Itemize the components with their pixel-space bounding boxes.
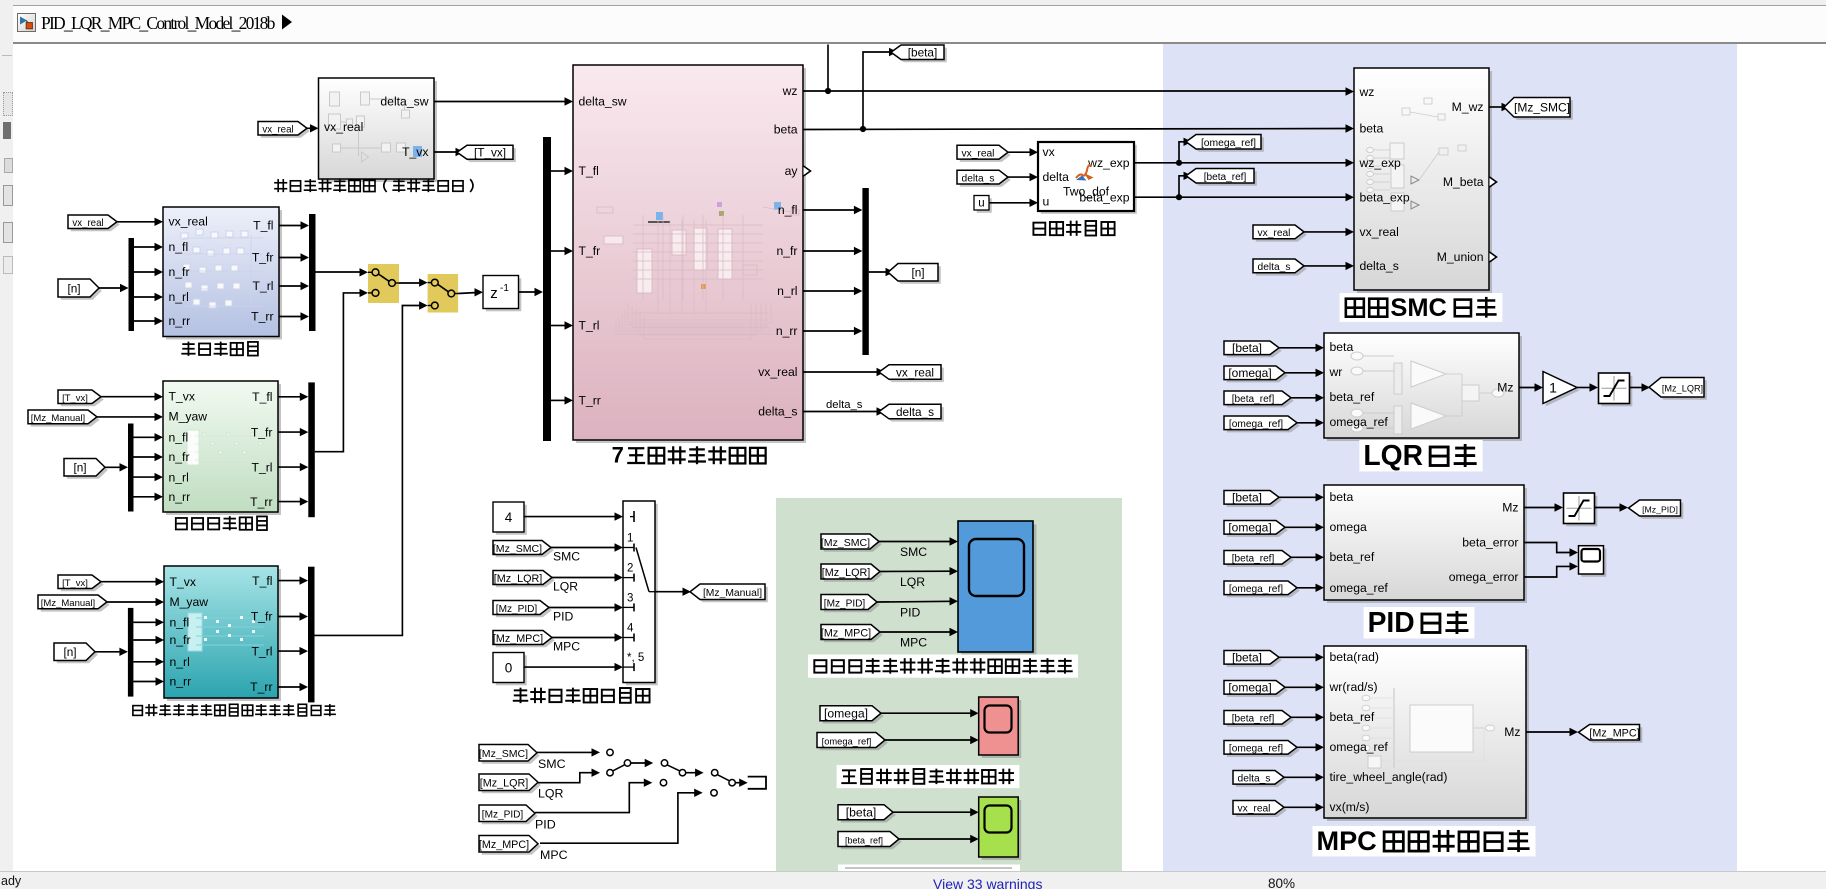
svg-text:[beta_ref]: [beta_ref] (845, 835, 883, 845)
from tag [Mz_MPC] (cascade) (479, 836, 541, 855)
wire T out y286 to mux (279, 285, 304, 287)
wire const0 to switch (524, 666, 617, 668)
wire [beta] mpc (1279, 656, 1318, 658)
svg-text:T_fr: T_fr (579, 244, 601, 258)
svg-text:MPC: MPC (1317, 825, 1377, 856)
wire sw2 to sw3 (686, 772, 698, 774)
from tag [omega_ref] (mpc) (1224, 741, 1300, 757)
svg-text:T_fl: T_fl (579, 164, 599, 178)
stub bracket (unfinished connection) (748, 777, 766, 789)
svg-text:[Mz_PID]: [Mz_PID] (1642, 504, 1678, 514)
wire demux1 out y297 (134, 296, 158, 298)
svg-text:vx_real: vx_real (962, 149, 995, 160)
from tag [Mz_MPC] (cmp scope) (821, 625, 883, 643)
svg-text:LQR: LQR (900, 575, 925, 589)
mux bar (no-control outputs) (309, 214, 316, 331)
svg-text:Mz: Mz (1504, 725, 1520, 739)
wire [Mz_LQR] switch (552, 577, 617, 579)
svg-text:[Mz_LQR]: [Mz_LQR] (494, 573, 542, 585)
wire [omega_ref] pid (1297, 587, 1318, 589)
svg-text:n_rl: n_rl (169, 470, 189, 484)
svg-text:wr: wr (1329, 365, 1343, 379)
svg-text:ay: ay (785, 164, 799, 178)
junction wz (825, 88, 831, 94)
svg-text:beta_exp: beta_exp (1360, 190, 1410, 204)
svg-text:n_rr: n_rr (169, 490, 191, 504)
junction beta_exp (1176, 194, 1182, 200)
svg-text:[Mz_SMC]: [Mz_SMC] (479, 748, 528, 760)
block LQR LQR控制 (LQR subsystem) (1324, 333, 1522, 441)
wire [n] lower demux (95, 651, 122, 653)
svg-text:[beta]: [beta] (846, 806, 877, 820)
svg-text:T_rl: T_rl (252, 644, 273, 658)
svg-text:PID: PID (1368, 606, 1415, 638)
saturation block (lqr) (1599, 373, 1633, 406)
svg-text:[Mz_MPC]: [Mz_MPC] (493, 633, 543, 645)
goto tag [omega_ref] (smc) (1186, 135, 1264, 152)
sw3 diagonal (717, 775, 729, 781)
saturation block (pid) (1564, 493, 1598, 526)
top spacer above breadcrumb (13, 0, 1826, 5)
demux bar (plant T inputs) (543, 137, 551, 441)
unit delay block z^-1 (483, 276, 521, 312)
from tag [omega_ref] (red scope) (817, 733, 888, 751)
from tag [T_vx] (avg) (58, 390, 104, 406)
wire T_vx to goto (434, 151, 458, 153)
goto tag [Mz_LQR] (1649, 378, 1707, 400)
from tag vx_real (mpc) (1233, 801, 1287, 817)
svg-text:SMC: SMC (538, 757, 566, 771)
sw3 contact out (729, 780, 735, 786)
wire beta_exp to [beta_ref] (1179, 176, 1186, 197)
svg-text:[Mz_SMC]: [Mz_SMC] (493, 543, 542, 555)
sw1 diagonal (613, 765, 625, 771)
demux bar (lower inputs) (128, 608, 133, 697)
wire plant input y325.5 (551, 325, 567, 327)
wire n y291 mux (803, 290, 857, 292)
label MPC模型预测控制 (1313, 825, 1536, 856)
svg-text:delta_s: delta_s (758, 405, 797, 419)
svg-text:n_fr: n_fr (776, 244, 797, 258)
wire n y210 mux (803, 209, 857, 211)
from tag [omega] (red scope) (820, 706, 884, 724)
svg-text:Two_dof: Two_dof (1063, 185, 1110, 199)
svg-text:2: 2 (627, 563, 633, 575)
wire vx_real out (803, 371, 879, 373)
wire [Mz_PID] cmp scope (877, 600, 952, 603)
sw3 contact in1 (712, 770, 718, 776)
wire wz plant->SMC (803, 90, 1348, 92)
goto tag [Mz_PID] (1629, 500, 1684, 519)
wire [Mz_PID] switch (549, 607, 617, 609)
wire [omega] red scope (881, 712, 973, 714)
svg-text:vx_real: vx_real (1238, 804, 1271, 815)
wire Mz_MPC to sw3 (540, 793, 697, 843)
wire demux1 out y247 (134, 246, 158, 248)
wire demux3 out y681.5 (133, 681, 158, 683)
svg-text:vx(m/s): vx(m/s) (1330, 800, 1370, 814)
sw2 contact in2 (660, 780, 666, 786)
block PID PID控制 (PID subsystem) (1324, 485, 1527, 603)
wire vx_real to driver (307, 127, 313, 129)
svg-text:vx_real: vx_real (324, 120, 363, 134)
wire wz_exp to [omega_ref] (1179, 142, 1186, 163)
svg-text:-1: -1 (500, 283, 509, 294)
mux bar (lower outputs) (308, 567, 315, 703)
svg-text:T_vx: T_vx (169, 390, 195, 404)
svg-text:vx_real: vx_real (758, 365, 797, 379)
from tag [Mz_SMC] (cmp scope) (821, 534, 882, 552)
svg-text:wz_exp: wz_exp (1359, 156, 1402, 170)
svg-text:n_rl: n_rl (777, 284, 797, 298)
sw3 contact in2 (711, 790, 717, 796)
wire [Mz_SMC] cmp scope (879, 541, 952, 543)
wire [beta_ref] mpc (1291, 716, 1318, 718)
svg-text:beta_ref: beta_ref (1330, 710, 1375, 724)
svg-text:omega_ref: omega_ref (1330, 581, 1389, 595)
svg-text:PID: PID (535, 818, 556, 832)
scope 质心侧偏角 (green scope) (979, 797, 1022, 860)
wire vx_real twodof (1008, 151, 1032, 153)
svg-text:beta: beta (774, 123, 798, 137)
breadcrumb play arrow (280, 13, 296, 31)
wire Mz_LQR to sw1 (538, 773, 594, 783)
svg-text:vx_real: vx_real (896, 365, 934, 379)
wire switch to [Mz_Manual] (655, 591, 685, 593)
wire [Mz_Manual] lower (107, 601, 158, 603)
wire mux1 to switch1 in1 (316, 271, 363, 273)
wire [omega] mpc (1285, 686, 1318, 688)
svg-text:[Mz_SMC]: [Mz_SMC] (821, 537, 870, 549)
label 平均控制模块 (176, 516, 267, 530)
label 实际与目标横摆角速度 (837, 765, 1020, 788)
wire [Mz_MPC] switch (552, 637, 617, 639)
goto tag vx_real (plant) (879, 365, 944, 382)
scope 四种控制器 comparison (blue scope) (958, 521, 1036, 655)
svg-text:3: 3 (627, 592, 633, 604)
svg-text:M_yaw: M_yaw (169, 410, 208, 424)
svg-text:[Mz_PID]: [Mz_PID] (824, 598, 866, 609)
left toolbar strip (0, 0, 14, 871)
from tag [T_vx] (lower) (58, 575, 104, 591)
wire beta plant->SMC (803, 129, 1348, 130)
svg-text:delta_s: delta_s (826, 399, 863, 411)
svg-text:n_fr: n_fr (169, 450, 190, 464)
svg-text:T_rl: T_rl (579, 319, 600, 333)
goto tag [Mz_Manual] (690, 584, 768, 602)
from tag [omega_ref] (pid) (1224, 581, 1300, 597)
svg-text:*, 5: *, 5 (627, 652, 644, 664)
svg-text:[beta_ref]: [beta_ref] (1204, 172, 1247, 183)
svg-text:T_vx: T_vx (170, 575, 196, 589)
wire [Mz_LQR] cmp scope (880, 570, 952, 572)
from tag [beta] (lqr) (1224, 341, 1282, 357)
svg-text:n_fl: n_fl (778, 203, 798, 217)
sw1 contact in1 (607, 749, 613, 755)
svg-text:PID: PID (553, 610, 574, 624)
wire T out y257.5 to mux (279, 257, 304, 259)
svg-text:T_rl: T_rl (252, 460, 273, 474)
mux bar (n outputs) (862, 188, 868, 355)
manual switch 2 (yellow) (428, 274, 459, 313)
wire plant input y171 (551, 170, 567, 172)
wire demux2 out y496.8 (134, 496, 158, 498)
svg-text:LQR: LQR (538, 787, 564, 801)
svg-text:beta: beta (1330, 340, 1354, 354)
svg-text:n_rr: n_rr (776, 324, 798, 338)
svg-text:omega: omega (1330, 520, 1367, 534)
svg-text:4: 4 (505, 510, 513, 525)
wire wz junction up (827, 45, 829, 92)
wire delta_sw driver to plant (434, 101, 567, 103)
wire [Mz_MPC] cmp scope (880, 631, 952, 633)
wire Tavg y501.6 mux (278, 501, 303, 503)
svg-text:vx: vx (1043, 145, 1055, 159)
svg-text:[Mz_LQR]: [Mz_LQR] (1662, 384, 1703, 394)
wire n y331 mux (803, 330, 857, 332)
goto tag [T_vx] (driver) (457, 145, 516, 162)
constant block 4 (493, 502, 527, 535)
from tag [Mz_SMC] (mode sel) (493, 541, 554, 558)
green comparison area (776, 498, 1122, 871)
wire beta_error to scope (1524, 543, 1572, 553)
wire Tlow y651.1 mux (278, 650, 303, 652)
svg-text:Mz: Mz (1497, 381, 1513, 395)
sw2 diagonal (667, 765, 680, 771)
constant block 0 (493, 653, 527, 686)
from tag vx_real (twodof) (957, 145, 1011, 162)
svg-text:omega_ref: omega_ref (1330, 415, 1389, 429)
label 期望值计算 (1033, 221, 1114, 236)
model icon in breadcrumb (17, 13, 36, 32)
svg-text:vx_real: vx_real (169, 215, 208, 229)
svg-text:SMC: SMC (553, 550, 580, 564)
wire const4 to switch (524, 516, 617, 518)
wire plant input y400.4 (551, 399, 567, 401)
wire [Mz_Manual] avg (97, 416, 157, 418)
svg-text:[omega_ref]: [omega_ref] (1229, 584, 1283, 595)
svg-text:[Mz_LQR]: [Mz_LQR] (822, 567, 870, 579)
svg-text:omega_ref: omega_ref (1330, 740, 1389, 754)
svg-text:M_beta: M_beta (1443, 175, 1484, 189)
wire Mz pid to saturation (1524, 507, 1557, 509)
svg-text:T_fl: T_fl (253, 219, 273, 233)
wire vx_real to block (117, 221, 157, 223)
from tag [Mz_PID] (mode sel) (493, 601, 552, 618)
goto tag [beta_ref] (smc) (1186, 169, 1257, 186)
svg-text:[n]: [n] (73, 461, 86, 475)
from tag [beta_ref] (pid) (1224, 551, 1294, 567)
svg-text:delta_s: delta_s (962, 173, 995, 184)
demux bar (no-control inputs) (129, 238, 135, 331)
from tag vx_real (no-control) (68, 215, 120, 231)
svg-text:n_rr: n_rr (170, 675, 192, 689)
svg-text:M_yaw: M_yaw (170, 595, 209, 609)
wire Tavg y432.1 mux (278, 431, 303, 433)
svg-text:[omega]: [omega] (824, 707, 868, 721)
goto tag [Mz_SMC] (smc out) (1504, 98, 1573, 120)
demux bar (avg inputs) (128, 424, 134, 512)
svg-text:T_rr: T_rr (250, 680, 272, 694)
svg-text:delta_sw: delta_sw (579, 95, 627, 109)
from tag [Mz_LQR] (cmp scope) (821, 564, 883, 582)
wire [omega_ref] red scope (885, 739, 973, 741)
wire demux3 out y661.8 (133, 661, 158, 663)
svg-text:[omega_ref]: [omega_ref] (1229, 744, 1283, 755)
svg-text:MPC: MPC (553, 640, 580, 654)
svg-text:vx_real: vx_real (1258, 228, 1291, 239)
wire sw3 to stub (735, 782, 741, 784)
svg-text:[Mz_Manual]: [Mz_Manual] (31, 413, 85, 424)
svg-text:u: u (1043, 195, 1050, 209)
wire [T_vx] avg (101, 396, 157, 398)
from tag [omega] (lqr) (1224, 366, 1288, 382)
svg-text:SMC: SMC (1390, 294, 1446, 322)
from tag [n] (no-control) (58, 279, 102, 300)
from tag [beta] (pid) (1224, 491, 1282, 507)
svg-text:beta_error: beta_error (1462, 536, 1518, 550)
from tag [Mz_Manual] (avg) (28, 410, 100, 427)
from tag [beta_ref] (lqr) (1224, 391, 1294, 407)
breadcrumb bar (13, 5, 1826, 44)
label 无控制模块 (181, 342, 258, 356)
status bar (0, 871, 1826, 889)
from tag [Mz_Manual] (lower) (38, 595, 110, 612)
from tag [n] (lower) (54, 643, 98, 663)
svg-text:delta_sw: delta_sw (380, 95, 428, 109)
wire [omega] lqr (1285, 372, 1318, 374)
wire beta_exp to SMC (1134, 196, 1348, 198)
svg-text:[n]: [n] (63, 645, 76, 659)
wire switch1 to switch2 (399, 282, 422, 284)
junction wz_exp (1176, 160, 1182, 166)
open port M_beta (1490, 177, 1497, 187)
wire M_wz to [Mz_SMC] (1489, 106, 1504, 108)
svg-text:0: 0 (505, 661, 513, 676)
svg-text:T_fr: T_fr (251, 425, 273, 439)
block MPC MPC模型预测控制 (MPC subsystem) (1324, 646, 1529, 821)
wire delta_s smc (1304, 265, 1348, 267)
wire Mz_PID to sw2 (535, 783, 646, 813)
svg-text:[Mz_MPC]: [Mz_MPC] (1589, 728, 1639, 740)
wire Tavg y467.1 mux (278, 466, 303, 468)
wire demux1 out y321 (134, 320, 158, 322)
svg-text:[T_vx]: [T_vx] (62, 393, 88, 404)
svg-text:[beta_ref]: [beta_ref] (1232, 714, 1275, 725)
wire demux1 out y272 (134, 271, 158, 273)
wire mux to [n] goto (869, 271, 888, 273)
wire vx_real mpc (1284, 806, 1318, 808)
from tag [beta] (mpc) (1224, 651, 1282, 667)
block Two_dof 期望值计算 (MATLAB Fcn) (1038, 142, 1137, 214)
open port ay (804, 166, 811, 176)
from tag [omega_ref] (lqr) (1224, 416, 1300, 432)
svg-text:[Mz_Manual]: [Mz_Manual] (41, 598, 95, 609)
svg-text:[n]: [n] (911, 266, 924, 280)
svg-text:LQR: LQR (553, 580, 578, 594)
label 滑模SMC控制 (1340, 293, 1503, 322)
wire demux3 out y640 (133, 639, 158, 641)
label 开环驾驶员模型（驾驶员输入） (274, 179, 473, 192)
from tag [Mz_PID] (cascade) (479, 805, 538, 824)
wire delta_s mpc (1284, 776, 1318, 778)
svg-text:[beta]: [beta] (1232, 491, 1262, 505)
from tag [n] (avg) (64, 459, 108, 479)
wire omega_error to scope (1524, 566, 1572, 577)
svg-text:delta_s: delta_s (1238, 774, 1271, 785)
block 7自由度整车模型 (7-DOF plant subsystem) (573, 65, 806, 443)
svg-text:delta_s: delta_s (1258, 262, 1291, 273)
svg-text:beta_ref: beta_ref (1330, 390, 1375, 404)
block 下层基于轮胎滑移率最优分配控制 (lower-layer allocation subsystem) (164, 566, 281, 701)
breadcrumb text (41, 13, 274, 34)
wire [beta_ref] green scope (899, 838, 973, 840)
svg-text:[omega]: [omega] (1228, 366, 1271, 380)
sw2 contact in1 (661, 760, 667, 766)
svg-text:M_union: M_union (1437, 250, 1484, 264)
svg-text:[beta]: [beta] (1232, 651, 1262, 665)
block u (constant) (974, 196, 992, 213)
wire mux2 to switch1 in2 (315, 293, 362, 452)
wire vx_real smc (1304, 231, 1348, 233)
from tag [omega] (pid) (1224, 521, 1288, 537)
wire beta to goto [beta] (863, 52, 892, 129)
svg-text:[Mz_Manual]: [Mz_Manual] (703, 588, 762, 599)
left toolbar icons (cut off) (2, 55, 12, 56)
sw2 contact out (679, 770, 685, 776)
wire Mz_SMC to sw1 (537, 751, 594, 753)
wire demux2 out y437.3 (134, 436, 158, 438)
svg-text:4: 4 (627, 623, 634, 635)
wire saturation to [Mz_LQR] (1630, 387, 1645, 389)
svg-text:n_fl: n_fl (169, 240, 189, 254)
block 平均控制模块 (average control subsystem) (163, 381, 281, 515)
wire [n] avg demux (105, 466, 123, 468)
svg-text:[T_vx]: [T_vx] (474, 146, 506, 160)
svg-text:tire_wheel_angle(rad): tire_wheel_angle(rad) (1330, 770, 1448, 784)
goto tag [n] (plant) (888, 264, 941, 284)
from tag [omega] (mpc) (1224, 681, 1288, 697)
svg-text:[omega_ref]: [omega_ref] (1229, 419, 1283, 430)
scope block (pid errors) (1579, 546, 1607, 577)
wire [beta] lqr (1279, 347, 1318, 349)
wire demux2 out y477.1 (134, 476, 158, 478)
svg-text:[beta_ref]: [beta_ref] (1232, 394, 1275, 405)
wire [omega_ref] lqr (1297, 422, 1318, 424)
svg-text:delta_s: delta_s (896, 405, 934, 419)
label PID控制 (1364, 606, 1475, 638)
svg-text:vx_real: vx_real (1360, 225, 1399, 239)
svg-text:n_fr: n_fr (170, 633, 191, 647)
wire Mz to gain (1519, 387, 1537, 389)
from tag vx_real (driver input) (258, 122, 310, 138)
svg-text:[n]: [n] (67, 281, 80, 295)
block 无控制模块 (no-control subsystem) (163, 207, 282, 340)
svg-text:n_fr: n_fr (169, 265, 190, 279)
svg-text:T_fl: T_fl (252, 574, 272, 588)
label sliver bottom (cut-off annotation) (838, 865, 1020, 872)
svg-text:wz: wz (1359, 85, 1375, 99)
wire [omega_ref] mpc (1297, 746, 1318, 748)
wire unit delay to demux (519, 291, 538, 293)
from tag [Mz_SMC] (cascade) (479, 745, 540, 764)
svg-text:PID: PID (900, 606, 921, 620)
from tag delta_s (smc) (1253, 259, 1307, 276)
wire Tavg y396.8 mux (278, 396, 303, 398)
wire Mz mpc to [Mz_MPC] (1526, 731, 1572, 733)
wire delta_s twodof (1008, 176, 1032, 178)
svg-text:MPC: MPC (540, 848, 568, 862)
